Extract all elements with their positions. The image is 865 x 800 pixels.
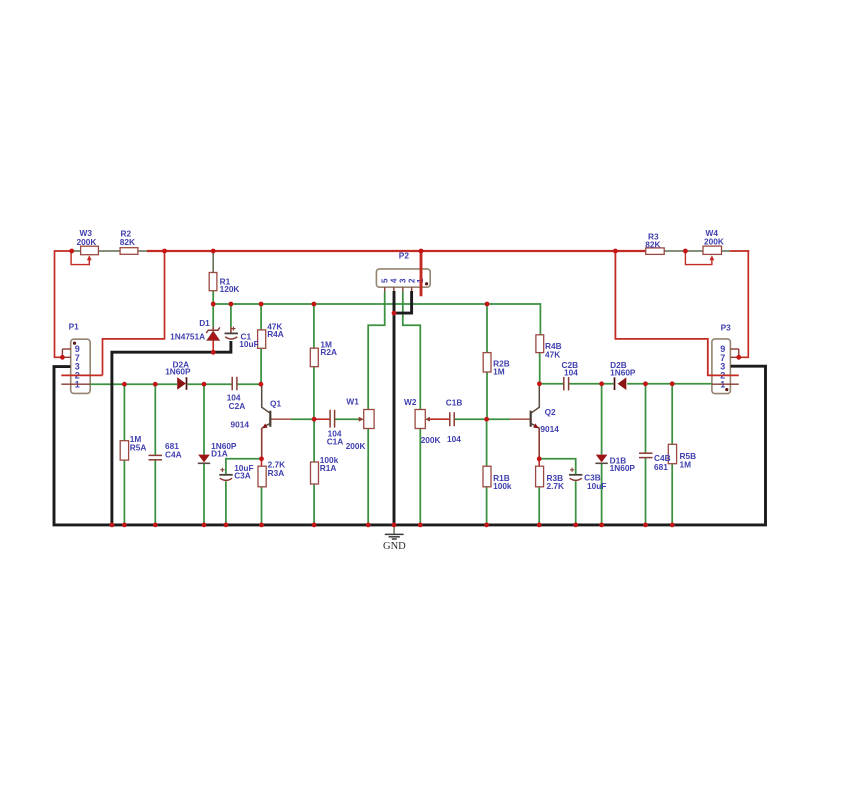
svg-text:1M: 1M: [680, 460, 692, 470]
svg-text:681: 681: [654, 462, 668, 472]
svg-text:47K: 47K: [545, 349, 560, 359]
svg-text:82K: 82K: [645, 239, 660, 249]
svg-text:R2A: R2A: [320, 347, 337, 357]
svg-text:W2: W2: [404, 397, 417, 407]
svg-text:5: 5: [381, 278, 390, 283]
svg-text:10uF: 10uF: [239, 339, 258, 349]
svg-text:1N60P: 1N60P: [610, 463, 636, 473]
svg-text:C4A: C4A: [165, 450, 182, 460]
svg-text:P2: P2: [399, 250, 410, 260]
svg-text:D1A: D1A: [211, 449, 228, 459]
svg-text:104: 104: [564, 367, 578, 377]
svg-text:3: 3: [399, 278, 408, 283]
svg-text:1N60P: 1N60P: [610, 367, 636, 377]
svg-text:9014: 9014: [540, 424, 559, 434]
svg-text:R5A: R5A: [130, 442, 147, 452]
svg-text:2.7K: 2.7K: [547, 481, 565, 491]
svg-text:4: 4: [390, 278, 399, 283]
svg-text:Q2: Q2: [545, 407, 556, 417]
svg-text:R3A: R3A: [268, 468, 285, 478]
svg-text:200K: 200K: [704, 237, 724, 247]
svg-text:C1B: C1B: [446, 398, 463, 408]
svg-text:D1: D1: [199, 318, 210, 328]
svg-text:C3A: C3A: [234, 470, 251, 480]
svg-text:P3: P3: [721, 323, 732, 333]
svg-text:9014: 9014: [231, 420, 250, 430]
svg-text:R1A: R1A: [320, 463, 337, 473]
svg-text:10uF: 10uF: [587, 481, 606, 491]
svg-text:1M: 1M: [493, 367, 505, 377]
svg-text:82K: 82K: [120, 237, 135, 247]
svg-text:120K: 120K: [220, 284, 240, 294]
svg-text:200K: 200K: [346, 441, 366, 451]
svg-text:GND: GND: [383, 541, 406, 552]
svg-text:R4A: R4A: [267, 329, 284, 339]
svg-text:200K: 200K: [421, 435, 441, 445]
svg-text:100k: 100k: [493, 481, 512, 491]
svg-text:1N4751A: 1N4751A: [170, 332, 205, 342]
svg-text:104: 104: [447, 434, 461, 444]
svg-text:W1: W1: [346, 397, 359, 407]
svg-text:200K: 200K: [77, 237, 97, 247]
svg-text:C2A: C2A: [229, 401, 246, 411]
svg-text:P1: P1: [69, 322, 80, 332]
svg-text:C1A: C1A: [327, 436, 344, 446]
svg-text:1N60P: 1N60P: [165, 367, 191, 377]
svg-text:Q1: Q1: [270, 399, 281, 409]
